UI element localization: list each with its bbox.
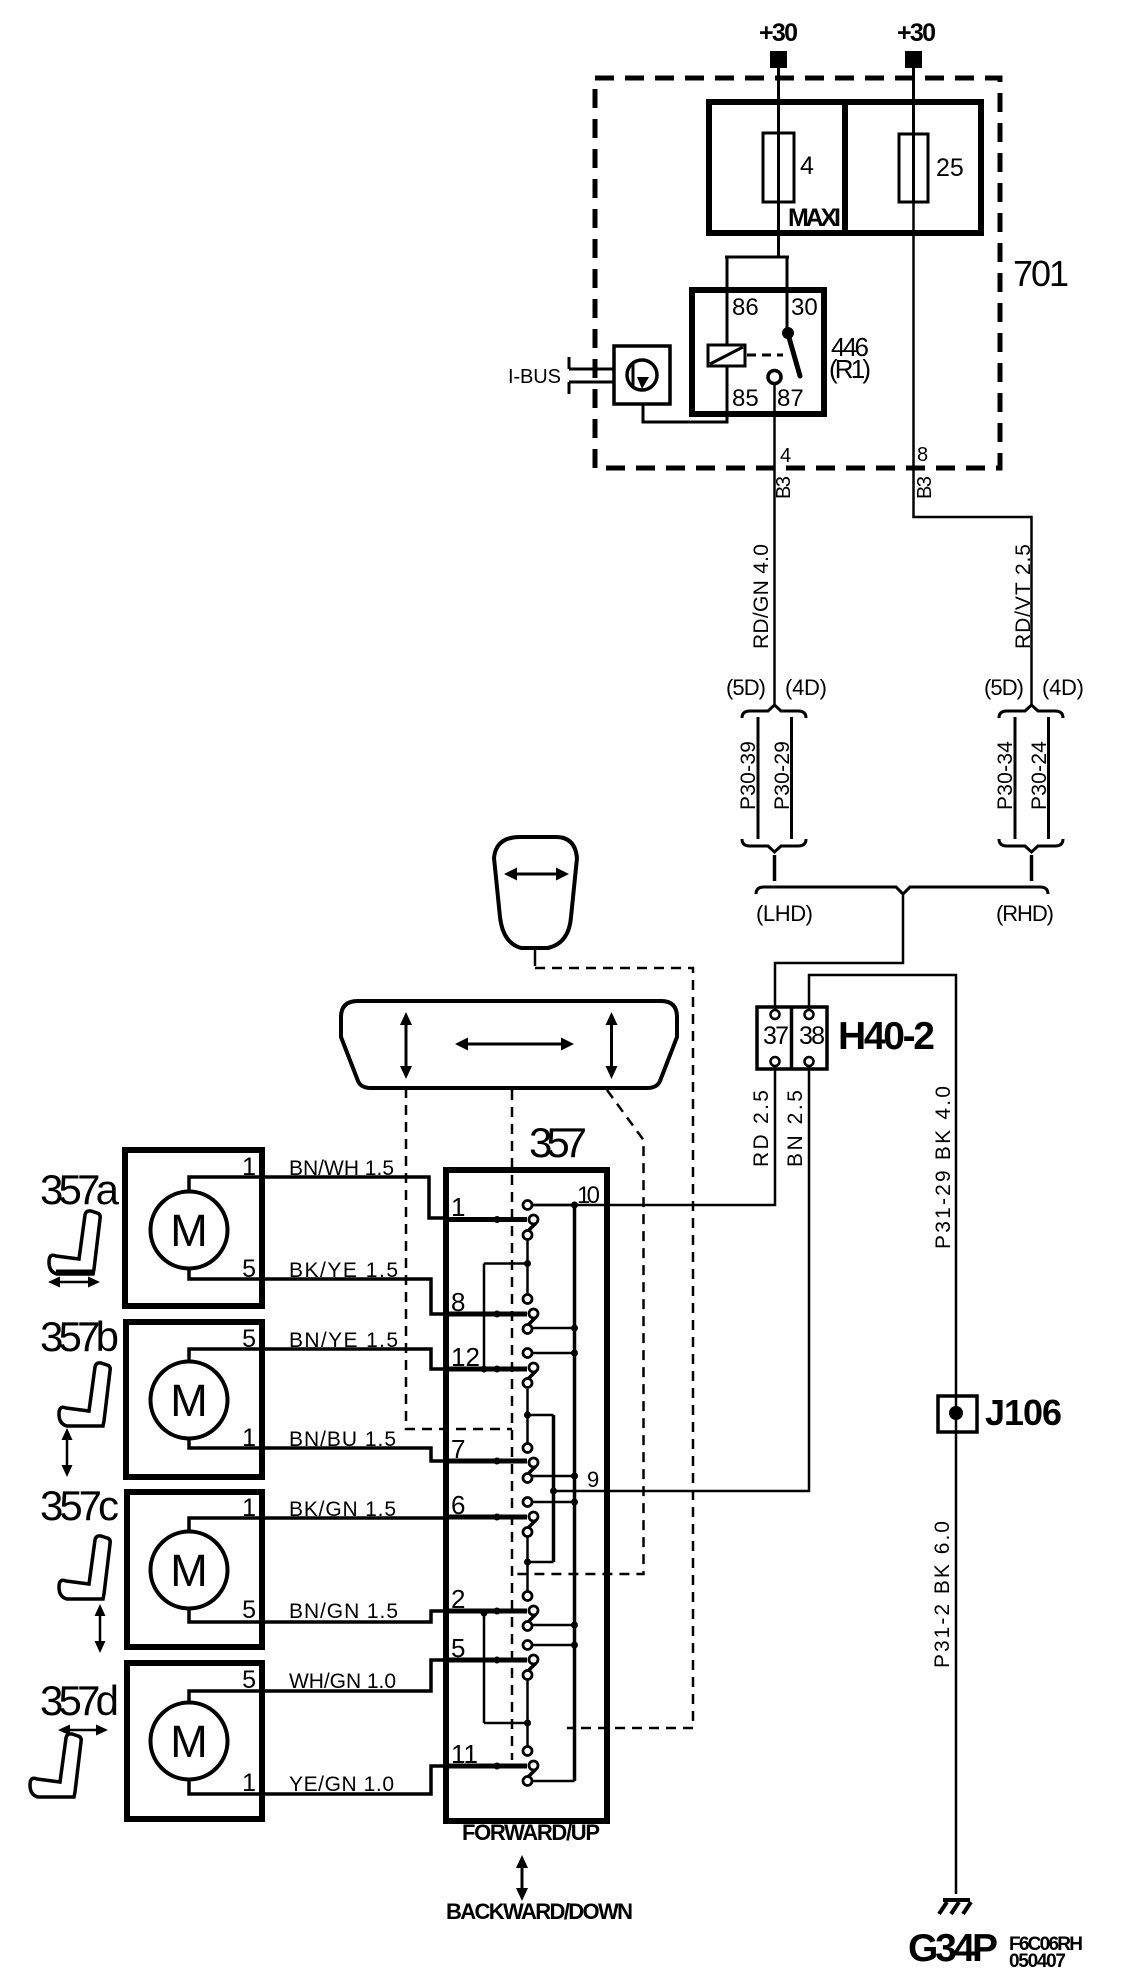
svg-text:5: 5 (242, 1325, 256, 1353)
svg-text:M: M (170, 1205, 208, 1256)
switch unit 357 box (446, 1170, 607, 1821)
svg-text:G34P: G34P (908, 1927, 998, 1970)
stub below left connector (773, 855, 777, 881)
svg-text:4: 4 (780, 445, 791, 467)
svg-text:+30: +30 (897, 19, 936, 47)
svg-text:5: 5 (242, 1666, 256, 1694)
svg-text:(LHD): (LHD) (756, 901, 813, 926)
svg-text:(R1): (R1) (829, 354, 871, 384)
switch contact set pin 12 (449, 1349, 538, 1388)
wire throw contact to rail at 1476 (532, 1473, 578, 1480)
svg-text:37: 37 (763, 1022, 789, 1050)
svg-text:BN/BU 1.5: BN/BU 1.5 (289, 1428, 396, 1451)
fuse holder box (709, 102, 981, 233)
wire H40-2 pin 38 to ground run (809, 975, 956, 1894)
svg-text:86: 86 (732, 294, 759, 321)
wire H40-2 pin 38 to switch pin 9 (554, 1066, 810, 1491)
svg-text:85: 85 (732, 385, 759, 412)
P30-34 label (994, 741, 1017, 810)
motor 357d box (127, 1663, 262, 1819)
pad left vertical double arrow (405, 1021, 408, 1070)
svg-text:B3: B3 (773, 476, 795, 499)
svg-text:(RHD): (RHD) (996, 901, 1054, 926)
svg-text:M: M (170, 1716, 208, 1767)
svg-text:1: 1 (242, 1153, 256, 1181)
I-BUS control module box (614, 346, 670, 404)
svg-text:M: M (170, 1545, 208, 1596)
svg-text:9: 9 (587, 1467, 599, 1492)
svg-text:1: 1 (242, 1424, 256, 1452)
wire throw contact to rail at 1625 (532, 1622, 578, 1629)
svg-text:(4D): (4D) (785, 675, 827, 700)
wire chain sw12 lower to sw7 upper with rail B branch (524, 1389, 554, 1443)
svg-text:11: 11 (451, 1739, 478, 1769)
wire from +30 left to fuse 4 (777, 68, 780, 133)
seat 357c vertical double arrow (95, 1604, 106, 1653)
motor 357a box (125, 1150, 262, 1306)
svg-text:P31-29 BK 4.0: P31-29 BK 4.0 (932, 1086, 955, 1249)
svg-text:P30-29: P30-29 (771, 741, 794, 810)
P30-29 label (771, 741, 794, 810)
svg-text:357c: 357c (40, 1482, 119, 1529)
mechanical link knob to switch (535, 968, 693, 1728)
wire pin 10 rail (532, 1204, 573, 1207)
switch contact set pin 11 (449, 1747, 538, 1786)
svg-text:25: 25 (936, 154, 964, 182)
wire throw contact to rail at 1502 (532, 1499, 578, 1506)
wire label BN 2.5 (784, 1090, 807, 1167)
svg-text:WH/GN 1.0: WH/GN 1.0 (289, 1670, 396, 1693)
switch contact set pin 1 (449, 1201, 538, 1240)
svg-text:357d: 357d (40, 1677, 119, 1724)
seat 357a horizontal double arrow (48, 1277, 100, 1288)
wire from +30 right to fuse 25 (912, 68, 915, 134)
P30-29 connector line (790, 717, 793, 839)
P30-39 label (737, 741, 760, 810)
wire chain sw5 lower to sw11 upper with pin2 branch (481, 1610, 532, 1747)
wire throw contact to rail at 1645 (532, 1642, 578, 1649)
switch contact set pin 8 (449, 1295, 538, 1334)
wire label RD/GN 4.0 (750, 544, 773, 649)
svg-text:38: 38 (799, 1022, 825, 1050)
seat icon 357c (height front) (59, 1536, 110, 1599)
svg-text:B3: B3 (914, 476, 936, 499)
svg-text:8: 8 (917, 444, 928, 466)
wire fuse25 down to B3 and (RHD) connector (914, 202, 1032, 705)
svg-text:+30: +30 (759, 19, 798, 47)
knob horizontal double arrow (512, 873, 561, 876)
pad right vertical double arrow (610, 1021, 613, 1070)
motor 357b symbol M (151, 1349, 447, 1461)
svg-text:RD/VT 2.5: RD/VT 2.5 (1012, 544, 1035, 649)
relay coil to pin 85 wire (643, 366, 727, 422)
switch contact set pin 5 (449, 1641, 538, 1680)
svg-text:P31-2 BK 6.0: P31-2 BK 6.0 (931, 1521, 954, 1668)
mechanical link pad right diagonal (512, 1090, 644, 1574)
wire relay pin 87 down to (LHD) connector (773, 384, 776, 705)
B3 net label right (914, 476, 936, 499)
svg-text:30: 30 (791, 294, 818, 321)
svg-text:357: 357 (529, 1119, 587, 1166)
seat 357d horizontal double arrow (58, 1725, 108, 1736)
motor 357c box (127, 1492, 262, 1647)
unit 701 dashed box (595, 78, 1000, 468)
svg-text:BK/GN 1.5: BK/GN 1.5 (289, 1498, 396, 1521)
I-BUS twisted pair lines (569, 357, 614, 394)
wire fuse4 to relay pins 86 and 30 (725, 257, 789, 345)
svg-text:H40-2: H40-2 (838, 1015, 935, 1058)
svg-text:357a: 357a (40, 1166, 120, 1213)
svg-text:(5D): (5D) (984, 675, 1024, 700)
svg-text:FORWARD/UP: FORWARD/UP (462, 1820, 600, 1845)
brace under left P30 connector (742, 839, 806, 852)
svg-text:BACKWARD/DOWN: BACKWARD/DOWN (446, 1899, 633, 1924)
svg-text:YE/GN 1.0: YE/GN 1.0 (289, 1773, 394, 1796)
seat 357b vertical double arrow (62, 1428, 73, 1477)
svg-text:BN/GN 1.5: BN/GN 1.5 (289, 1600, 398, 1623)
motor 357d symbol M (151, 1660, 447, 1794)
switch contact set pin 6 (449, 1498, 538, 1537)
relay pin 87 contact circle (768, 371, 781, 384)
svg-text:12: 12 (451, 1342, 480, 1372)
svg-text:M: M (170, 1375, 208, 1426)
svg-text:RD/GN 4.0: RD/GN 4.0 (750, 544, 773, 649)
brace over left P30 connector (742, 705, 806, 718)
seat icon 357a (fore/aft) (49, 1211, 100, 1274)
svg-text:MAXI: MAXI (788, 204, 841, 232)
P30-34 connector line (1014, 717, 1017, 839)
pad horizontal double arrow (464, 1043, 565, 1046)
switch contact set pin 7 (449, 1444, 538, 1483)
svg-text:10: 10 (577, 1182, 600, 1209)
P30-24 label (1028, 741, 1051, 810)
svg-text:87: 87 (777, 385, 804, 412)
wire label RD 2.5 (750, 1090, 773, 1167)
motor 357c symbol M (151, 1518, 447, 1622)
B3 net label left (773, 476, 795, 499)
svg-text:(4D): (4D) (1042, 675, 1084, 700)
backrest adjuster knob (494, 837, 577, 948)
svg-text:6: 6 (451, 1490, 465, 1520)
wire H40-2 pin 37 to switch pin 10 (532, 1066, 775, 1205)
wire label P31-29 BK 4.0 (932, 1086, 955, 1249)
svg-text:(5D): (5D) (726, 675, 766, 700)
wire throw contact to rail at 1353 (532, 1350, 578, 1357)
svg-text:J106: J106 (985, 1392, 1062, 1433)
svg-text:RD 2.5: RD 2.5 (750, 1090, 773, 1167)
wire label P31-2 BK 6.0 (931, 1521, 954, 1668)
forward/backward double arrow (516, 1855, 528, 1901)
P30-24 connector line (1047, 717, 1050, 839)
seat adjuster switch pad (341, 1001, 677, 1088)
svg-text:2: 2 (451, 1584, 465, 1614)
svg-text:050407: 050407 (1009, 1951, 1066, 1972)
svg-text:7: 7 (451, 1434, 465, 1464)
svg-text:1: 1 (242, 1494, 256, 1522)
wire sw11 lower throw to rail end (532, 1780, 575, 1783)
common rail B to pin 9 (552, 1415, 556, 1562)
svg-text:P30-24: P30-24 (1028, 741, 1051, 810)
svg-text:BN/YE 1.5: BN/YE 1.5 (289, 1329, 398, 1352)
brace under right P30 connector (999, 839, 1063, 852)
I-BUS module symbol (627, 360, 657, 390)
svg-text:1: 1 (242, 1769, 256, 1797)
wire throw contact to rail at 1328 (532, 1325, 578, 1332)
motor 357a symbol M (151, 1177, 447, 1314)
svg-text:BN/WH 1.5: BN/WH 1.5 (289, 1157, 394, 1180)
brace over right P30 connector (999, 705, 1063, 718)
H40-2 pin sockets (771, 1010, 780, 1019)
stub below right connector (1030, 855, 1034, 881)
svg-text:701: 701 (1013, 253, 1069, 294)
mechanical link pad left (406, 1088, 512, 1429)
knob stub (534, 950, 537, 966)
connector H40-2 box (757, 1007, 827, 1069)
ground symbol (939, 1900, 971, 1914)
svg-text:5: 5 (242, 1596, 256, 1624)
svg-text:5: 5 (242, 1255, 256, 1283)
wire label RD/VT 2.5 (1012, 544, 1035, 649)
wire from brace to H40-2 pin 37 (775, 892, 903, 1009)
P30-39 connector line (757, 717, 760, 839)
svg-text:357b: 357b (40, 1313, 119, 1360)
svg-text:BK/YE 1.5: BK/YE 1.5 (289, 1259, 398, 1282)
fuse F25 (899, 134, 928, 202)
svg-text:P30-39: P30-39 (737, 741, 760, 810)
seat icon 357d (backrest tilt) (30, 1734, 81, 1797)
svg-text:I-BUS: I-BUS (508, 366, 561, 388)
relay contact lever (788, 334, 800, 376)
svg-text:8: 8 (451, 1287, 465, 1317)
svg-text:1: 1 (451, 1192, 465, 1222)
fuse box divider (842, 102, 848, 233)
relay contact pin 30 dot (782, 327, 794, 339)
common rail A from pin 10 (573, 1205, 577, 1781)
seat icon 357b (height rear) (59, 1363, 110, 1426)
svg-text:P30-34: P30-34 (994, 741, 1017, 810)
mechanical link pad centre (511, 1090, 514, 1760)
svg-text:BN 2.5: BN 2.5 (784, 1090, 807, 1167)
relay coil (708, 345, 745, 366)
relay 446 (R1) box (692, 290, 824, 414)
motor 357b box (126, 1322, 262, 1477)
svg-text:4: 4 (800, 152, 814, 180)
svg-text:5: 5 (451, 1633, 465, 1663)
relay armature dashed link (747, 354, 783, 357)
wire chain sw1 lower to sw8 upper with pin12 branch (481, 1240, 532, 1373)
switch contact set pin 2 (449, 1592, 538, 1631)
junction J106 (938, 1396, 977, 1432)
wire chain sw6 lower to sw2 upper joining rail B (524, 1536, 554, 1591)
fuse F4 (763, 133, 794, 202)
big brace joining LHD and RHD (756, 887, 1048, 894)
